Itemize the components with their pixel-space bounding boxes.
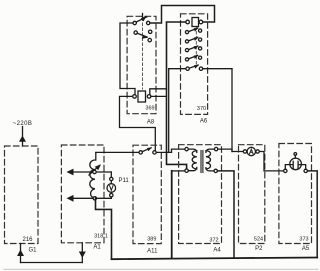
fuse F2 370 bbox=[186, 18, 203, 27]
svg-text:372: 372 bbox=[209, 238, 218, 244]
wire transformer bottom to bus bbox=[171, 171, 173, 259]
svg-text:A8: A8 bbox=[147, 120, 155, 126]
node A1 box bbox=[61, 145, 104, 243]
svg-text:370: 370 bbox=[197, 106, 206, 112]
wire transformer secondary top bbox=[218, 149, 244, 151]
tube V1 bbox=[284, 153, 308, 173]
switch S1 mechanical link bbox=[142, 18, 144, 89]
wire variac top lead arrow bbox=[67, 169, 112, 176]
wire variac wiper arrow bbox=[89, 164, 101, 175]
switch S2 row4 bbox=[185, 55, 201, 61]
node variac wiper junction bbox=[93, 170, 96, 173]
svg-text:P2: P2 bbox=[255, 246, 263, 252]
wire A6 fuse left long vertical bbox=[167, 22, 187, 169]
wire fuse369 left to crossbar bbox=[120, 96, 156, 150]
wire switch top to fuse369 left bbox=[120, 23, 135, 95]
node P2 box bbox=[239, 145, 265, 244]
wire G1 to A1 bottom link bbox=[21, 262, 83, 264]
node ~220V terminal bbox=[13, 121, 33, 146]
switch S2 mechanical link bbox=[195, 27, 197, 67]
switch S2 row2 bbox=[185, 37, 201, 43]
svg-text:A6: A6 bbox=[200, 119, 208, 125]
svg-text:A1: A1 bbox=[93, 245, 101, 251]
wire variac bottom lead arrow bbox=[67, 195, 112, 202]
wire transformer primary bottom bbox=[172, 170, 185, 172]
node variac bottom junction bbox=[93, 197, 96, 200]
node A4 box bbox=[179, 145, 222, 244]
fuse F1 369 bbox=[133, 91, 151, 102]
wire tube return bbox=[307, 171, 317, 258]
wire variac return to bottom bus bbox=[96, 198, 112, 259]
node A8 box bbox=[127, 16, 156, 113]
svg-text:A5: A5 bbox=[302, 246, 310, 252]
svg-text:373: 373 bbox=[299, 237, 308, 243]
svg-text:A4: A4 bbox=[213, 248, 221, 254]
svg-text:A11: A11 bbox=[147, 249, 158, 255]
switch S1 contact row2 changeover bbox=[134, 30, 152, 42]
transformer T1 variac bbox=[90, 153, 96, 199]
switch S1 contact row1 bbox=[133, 14, 150, 25]
node G1 box bbox=[5, 146, 39, 244]
voltmeter P11 bbox=[107, 172, 116, 198]
ammeter P2 bbox=[243, 147, 259, 155]
wire bottom bus bbox=[112, 258, 318, 260]
wire A6 row5 left drop bbox=[168, 69, 170, 153]
node A11 box bbox=[133, 145, 161, 243]
svg-text:P11: P11 bbox=[119, 178, 130, 184]
svg-text:369: 369 bbox=[145, 106, 154, 112]
wire fuse369 right jog bbox=[150, 89, 167, 97]
svg-text:524: 524 bbox=[254, 237, 263, 243]
node A6 box bbox=[181, 14, 208, 115]
svg-text:216: 216 bbox=[22, 237, 33, 243]
wire ammeter to tube bbox=[259, 152, 283, 171]
svg-text:G1: G1 bbox=[28, 248, 37, 254]
node A5 box bbox=[279, 144, 312, 244]
wire A6 row5 right drop bbox=[231, 69, 233, 152]
wire switch top right to top rail bbox=[150, 6, 215, 24]
svg-text:389: 389 bbox=[147, 237, 156, 243]
transformer T2 bbox=[185, 147, 218, 172]
switch S2 row5 bbox=[169, 65, 232, 71]
wire G1 bottom connector bbox=[17, 244, 24, 263]
wire transformer secondary bottom bbox=[217, 171, 234, 258]
svg-text:318 1: 318 1 bbox=[94, 234, 108, 240]
wire A1 bottom connector bbox=[79, 243, 86, 263]
switch S3 contact bbox=[96, 147, 172, 154]
wire switch to transformer primary top bbox=[172, 149, 185, 152]
switch S2 row3 bbox=[185, 46, 201, 52]
switch S2 row1 bbox=[185, 28, 201, 34]
